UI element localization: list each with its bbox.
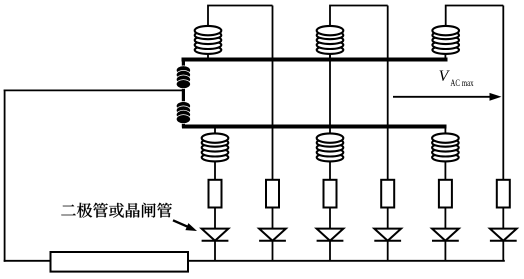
wire branch 5 (secondary L3 lead and bottom coil branch)	[444, 50, 446, 261]
wire primary winding leads	[182, 59, 185, 128]
arrow for V_ACmax	[393, 93, 502, 101]
label V_ACmax	[439, 68, 474, 88]
resistor R6	[497, 180, 510, 208]
resistor R3	[324, 180, 337, 208]
bottom bus bar	[182, 125, 447, 129]
wire branch 4 (top loop down to diode and bus)	[387, 6, 389, 261]
wire branch 1 (bottom coil to diode to bus)	[214, 128, 216, 261]
wire left return (down left edge)	[4, 90, 6, 262]
label 二极管或晶闸管 (diode or thyristor)	[61, 203, 172, 218]
resistor R5	[439, 180, 452, 208]
wire branch 3 (from secondary L2 through buses to diode)	[329, 50, 331, 261]
wire branch 6 (right edge, top loop down to diode)	[502, 6, 504, 261]
resistor R2	[266, 180, 279, 208]
diode D6	[490, 229, 517, 241]
resistor R1	[209, 180, 222, 208]
inductor L1 (top secondary winding 1)	[195, 26, 222, 54]
load resistor (long rectangle)	[51, 252, 189, 272]
wire bottom bus (cathode rail)	[188, 260, 505, 262]
diode D1	[202, 229, 229, 241]
wire loop from secondary coil L3 top to branch 6	[446, 6, 504, 30]
inductor L3 (top secondary winding 3)	[432, 26, 459, 54]
inductor L4 (bottom secondary winding 1)	[202, 133, 229, 161]
inductor L2 (top secondary winding 2)	[317, 26, 344, 54]
diode D3	[317, 229, 344, 241]
wire lead of L1 to top bus	[207, 50, 209, 59]
primary winding upper half	[176, 66, 190, 89]
wire lead of L2 to top bus	[329, 50, 331, 59]
resistor R4	[381, 180, 394, 208]
wire bottom left to load	[4, 260, 51, 262]
diode D2	[259, 229, 286, 241]
wire branch 2 (top loop down to diode and bus)	[272, 6, 274, 261]
inductor L5 (bottom secondary winding 2)	[317, 133, 344, 161]
wire center tap to left	[4, 89, 184, 91]
svg-text:AC max: AC max	[450, 78, 473, 88]
diode D4	[374, 229, 401, 241]
wire loop from secondary coil L1 top to branch 2	[208, 6, 273, 30]
primary winding lower half	[176, 102, 190, 124]
inductor L6 (bottom secondary winding 3)	[432, 133, 459, 161]
diode D5	[432, 229, 459, 241]
wire loop from secondary coil L2 top to branch 4	[330, 6, 388, 30]
annotation arrow pointing to diode D1	[173, 220, 197, 231]
top bus bar	[182, 58, 448, 62]
